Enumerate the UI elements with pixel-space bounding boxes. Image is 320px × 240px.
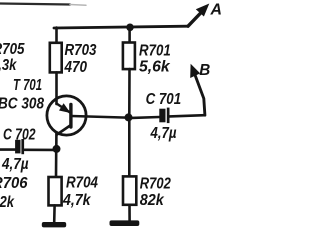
junction dot at C702/collector (53, 145, 61, 153)
svg-text:C 702: C 702 (3, 127, 36, 144)
wire: base lead to node (72, 116, 128, 118)
junction dot on rail (126, 24, 134, 32)
svg-text:R702: R702 (140, 176, 171, 193)
wire: R703 to transistor emitter (55, 72, 58, 104)
svg-text:3,3k: 3,3k (0, 57, 17, 74)
svg-text:T 701: T 701 (13, 77, 42, 94)
wire: node to R702 (128, 119, 131, 177)
resistor R701 (123, 43, 135, 70)
svg-text:R705: R705 (0, 41, 25, 58)
svg-text:A: A (210, 2, 222, 19)
svg-text:C 701: C 701 (146, 91, 182, 108)
transistor T701 circle (47, 96, 86, 135)
resistor R702 (123, 176, 136, 204)
junction node dot (base divider) (125, 113, 133, 121)
ground (R702) (110, 220, 140, 226)
transistor T701 emitter arrow (PNP) (59, 103, 71, 113)
resistor R703 (50, 43, 62, 73)
svg-text:BC 308: BC 308 (0, 96, 44, 113)
svg-text:82k: 82k (140, 192, 165, 209)
transistor T701 emitter diagonal (57, 104, 71, 113)
svg-text:R701: R701 (139, 43, 171, 60)
svg-text:4,7µ: 4,7µ (150, 125, 177, 142)
wire: R704 to ground (53, 205, 56, 222)
transistor T701 collector diagonal (57, 125, 71, 135)
wire: diagonal to A (188, 10, 204, 27)
wire: R702 to ground (128, 205, 131, 221)
svg-text:470: 470 (64, 59, 87, 76)
wire: R701 bottom to node (128, 69, 131, 116)
wire: node down to R704 (55, 152, 58, 178)
wire: node to C701 (132, 116, 159, 120)
wire: supply rail (54, 26, 188, 28)
wire: R703 top lead (55, 28, 58, 44)
svg-text:4,7k: 4,7k (62, 192, 91, 209)
svg-text:R704: R704 (66, 175, 98, 192)
ground (R704) (42, 222, 66, 227)
transistor T701 base bar (69, 105, 72, 128)
capacitor C701 plates (159, 109, 165, 123)
wire: C702 left lead (cropped) (0, 148, 16, 151)
wire: C702 right lead to node (25, 149, 54, 152)
arrowhead B (190, 64, 200, 78)
wire: cropped line top-left (0, 4, 70, 5)
svg-text:2k: 2k (0, 194, 15, 211)
wire: R701 top lead (128, 27, 131, 43)
wire: collector down to C702 node (55, 134, 58, 151)
svg-text:5,6k: 5,6k (139, 59, 171, 76)
svg-text:4,7µ: 4,7µ (1, 156, 28, 173)
wire: C701 to B corner (170, 115, 205, 116)
capacitor C702 plates (15, 140, 20, 154)
wire: B arrow shaft (193, 69, 205, 115)
svg-text:R703: R703 (65, 42, 97, 59)
svg-text:R706: R706 (0, 175, 28, 192)
svg-text:B: B (199, 62, 210, 79)
arrowhead A (196, 4, 210, 17)
resistor R704 (49, 177, 62, 205)
